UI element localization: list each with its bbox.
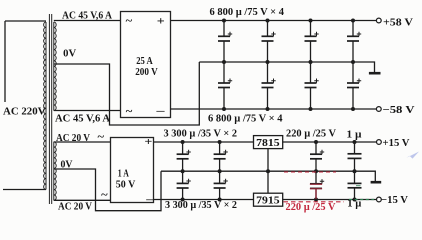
- svg-text:AC 220V: AC 220V: [3, 107, 46, 118]
- transformer T1 secondary S2 (AC 20V-0-20V): [54, 142, 56, 201]
- svg-text:~: ~: [98, 132, 105, 143]
- capacitor C12 3300u/35V (bottom): [214, 171, 228, 201]
- capacitor C4 6800u/75V (top bank): [347, 19, 361, 65]
- wire: 0V middle rail (upper bank): [199, 62, 374, 72]
- green annotation: dashes on -15V rail: [349, 199, 374, 201]
- svg-text:25 A: 25 A: [136, 56, 153, 67]
- svg-text:200 V: 200 V: [135, 67, 158, 78]
- red annotation: tint on C15 lower lead: [310, 184, 322, 199]
- svg-text:3 300 µ /35 V × 2: 3 300 µ /35 V × 2: [164, 129, 238, 140]
- wire: regulators ground pins: [267, 149, 269, 194]
- capacitor C11 3300u/35V (bottom): [177, 171, 191, 201]
- svg-text:220 µ /25 V: 220 µ /25 V: [286, 129, 336, 140]
- ground symbol (upper): [369, 72, 381, 75]
- watermark: light blue arrow: [407, 152, 420, 159]
- red annotation: dashed line over ground rail: [284, 171, 336, 173]
- wire: S2 center tap 0V routed below bridge B2 up to lower ground rail: [54, 169, 161, 211]
- svg-text:3 300 µ /35 V × 2: 3 300 µ /35 V × 2: [165, 200, 237, 211]
- svg-text:−58 V: −58 V: [383, 105, 415, 116]
- svg-text:6 800 µ /75 V × 4: 6 800 µ /75 V × 4: [208, 113, 283, 124]
- capacitor C8 6800u/75V (bottom bank): [347, 62, 361, 111]
- svg-text:~: ~: [101, 190, 108, 201]
- capacitor C7 6800u/75V (bottom bank): [305, 62, 319, 111]
- bridge rectifier B2 1A 50V: [111, 136, 154, 206]
- svg-text:0V: 0V: [63, 49, 76, 60]
- svg-text:7915: 7915: [256, 196, 280, 207]
- terminal +58 V: [376, 17, 413, 28]
- svg-text:6 800 µ /75 V × 4: 6 800 µ /75 V × 4: [210, 7, 285, 18]
- capacitor C10 3300u/35V (top): [214, 140, 228, 173]
- capacitor C15 220u/25V (bottom): [310, 171, 324, 201]
- svg-text:−15 V: −15 V: [381, 195, 408, 206]
- svg-text:AC 45 V,6 A: AC 45 V,6 A: [55, 113, 110, 124]
- ground symbol (lower): [371, 181, 382, 184]
- red annotation: dashed line right of 7915: [284, 201, 345, 203]
- transformer T1 secondary S1 (AC 45V-0-45V): [54, 22, 56, 111]
- svg-text:50 V: 50 V: [116, 180, 136, 191]
- wire: +58V rail from B1 + output: [171, 20, 377, 22]
- wire: S2 bottom tap to bridge B2 input 2: [54, 199, 111, 201]
- bridge rectifier B1 25A 200V: [121, 12, 171, 118]
- svg-text:220 µ /25 V: 220 µ /25 V: [286, 202, 336, 213]
- wire: S1 center tap 0V routed below bridge B1 up to mid rail: [54, 62, 200, 125]
- svg-text:1 µ: 1 µ: [347, 130, 362, 141]
- svg-text:+: +: [157, 15, 165, 27]
- terminal -58 V: [376, 105, 415, 116]
- terminal -15 V: [377, 195, 409, 206]
- transformer T1 primary winding: [3, 21, 46, 190]
- svg-text:+58 V: +58 V: [383, 17, 413, 28]
- svg-text:AC 20 V: AC 20 V: [58, 202, 92, 213]
- capacitor C6 6800u/75V (bottom bank): [262, 62, 276, 111]
- transformer T1 core: [49, 14, 51, 204]
- svg-text:+: +: [144, 136, 152, 148]
- capacitor C9 3300u/35V (top): [177, 140, 191, 173]
- capacitor C3 6800u/75V (top bank): [305, 19, 319, 65]
- capacitor C5 6800u/75V (bottom bank): [218, 62, 232, 111]
- wire: S1 top tap to bridge B1 input 1: [54, 20, 121, 22]
- wire: lower ground rail: [161, 171, 375, 181]
- svg-text:~: ~: [126, 16, 133, 27]
- regulator U1 7815: [254, 136, 283, 149]
- wire: S2 top tap to bridge B2 input 1: [54, 141, 111, 143]
- junction dot: regulator ground at rail: [266, 169, 270, 173]
- svg-text:AC 45 V,6 A: AC 45 V,6 A: [62, 10, 112, 21]
- svg-text:+15 V: +15 V: [383, 138, 410, 149]
- wire: +15V rail from B2 + output to regulator and terminal: [154, 141, 377, 143]
- svg-text:–: –: [145, 193, 154, 205]
- capacitor C1 6800u/75V (top bank): [218, 19, 232, 65]
- wire: -15V rail from B2 - output to regulator and terminal: [154, 199, 377, 201]
- capacitor C13 220u/25V (top): [310, 140, 324, 173]
- capacitor C16 1u (bottom): [348, 171, 362, 201]
- svg-text:–: –: [155, 105, 165, 117]
- terminal +15 V: [377, 138, 410, 149]
- capacitor C14 1u (top): [348, 140, 362, 173]
- svg-text:~: ~: [126, 107, 133, 118]
- capacitor C2 6800u/75V (top bank): [262, 19, 276, 65]
- svg-text:1 A: 1 A: [118, 168, 130, 179]
- svg-text:7815: 7815: [256, 138, 280, 149]
- label AC 20 V ~ (S2 top tap): [56, 132, 105, 144]
- wire: S1 bottom tap to bridge B1 input 2: [54, 110, 121, 112]
- regulator U2 7915: [254, 193, 283, 206]
- wire: -58V rail from B1 - output: [171, 108, 377, 110]
